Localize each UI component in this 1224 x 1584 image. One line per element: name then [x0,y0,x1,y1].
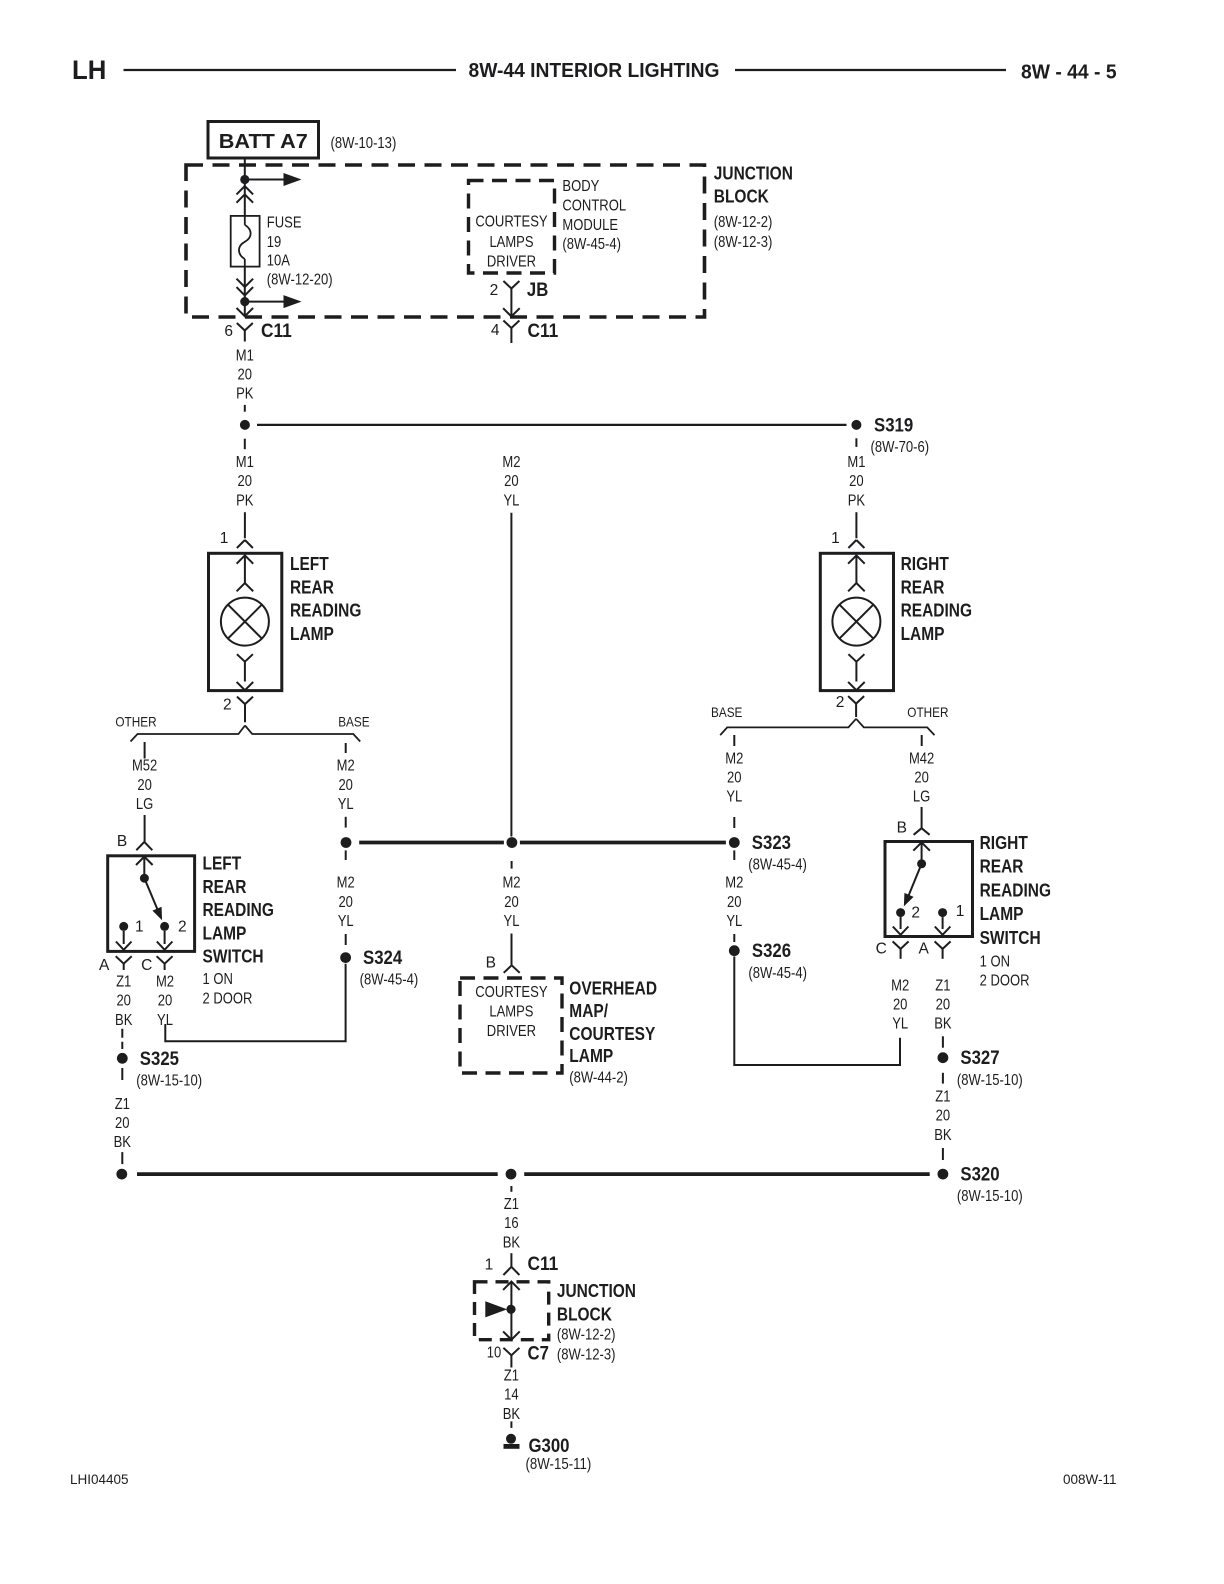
svg-text:M42: M42 [909,750,934,767]
left lamp internal fork lower [237,654,253,681]
svg-text:REAR: REAR [980,857,1024,877]
junction block 2 internal dot [506,1305,515,1314]
svg-text:YL: YL [157,1012,173,1029]
splice dash above S326 [733,934,735,942]
svg-text:S324: S324 [363,947,402,969]
header rule right [735,69,1006,71]
svg-text:READING: READING [980,880,1051,900]
svg-text:(8W-45-4): (8W-45-4) [748,965,807,982]
svg-text:B: B [486,955,496,972]
svg-text:G300: G300 [529,1435,570,1457]
wire courtesy feed line right segment [520,841,726,845]
splice S323 dot [729,837,740,848]
svg-text:BK: BK [934,1127,952,1144]
splice S327 dot [938,1052,949,1063]
wire M1 PK down to left lamp [244,512,246,538]
connector chevrons above fuse [237,186,254,203]
junction block 2 internal arrow [486,1302,506,1317]
left lamp internal chevron [237,583,254,591]
junction block name and references [714,164,793,252]
wire label Z1 20 BK right lower [934,1089,952,1144]
header title 8W-44 INTERIOR LIGHTING [469,60,720,82]
svg-text:16: 16 [504,1215,519,1232]
svg-text:BK: BK [115,1012,133,1029]
right switch pin C connector [876,940,909,958]
svg-text:BLOCK: BLOCK [714,187,769,207]
svg-text:20: 20 [893,997,908,1014]
svg-text:20: 20 [116,993,131,1010]
fuse FUSE 19 10A symbol [231,216,260,267]
svg-text:C: C [876,940,887,957]
svg-text:Z1: Z1 [504,1196,519,1213]
svg-text:LAMP: LAMP [901,624,945,644]
right switch pivot dot [917,859,926,868]
right lamp pin 2 connector [836,694,864,717]
reference (8W-10-13) [331,135,397,152]
svg-text:M2: M2 [891,977,909,994]
svg-text:PK: PK [848,492,866,509]
svg-text:LAMP: LAMP [980,904,1024,924]
svg-text:YL: YL [892,1016,908,1033]
svg-text:JB: JB [527,279,548,301]
svg-text:DRIVER: DRIVER [487,1023,536,1040]
right switch arm with arrow [904,864,921,905]
svg-text:(8W-12-3): (8W-12-3) [557,1346,616,1363]
right switch position legend [980,954,1030,990]
svg-text:M1: M1 [847,454,865,471]
svg-text:LEFT: LEFT [290,554,329,574]
wire label M2 20 YL right base lower [725,875,743,930]
right option bracket [720,719,934,735]
right switch terminal 2 dot [896,908,905,917]
svg-text:(8W-15-10): (8W-15-10) [957,1188,1023,1205]
splice dash below S319 [855,438,857,447]
splice S325 label [136,1048,202,1090]
svg-text:20: 20 [936,1108,951,1125]
svg-text:MAP/: MAP/ [569,1001,608,1021]
junction block 2 internal arrowhead bottom [503,1331,520,1339]
svg-text:(8W-12-20): (8W-12-20) [267,272,333,289]
right lamp internal wire top [855,555,857,583]
svg-text:COURTESY: COURTESY [475,984,547,1001]
left rear reading lamp box [209,553,282,690]
splice dash below S325 [121,1068,123,1080]
svg-text:M2: M2 [337,875,355,892]
svg-text:C: C [141,957,152,974]
splice dash below right bracket other [921,735,923,746]
svg-text:M2: M2 [502,875,520,892]
left rear reading lamp switch box [108,856,195,952]
svg-text:20: 20 [936,997,951,1014]
svg-text:SWITCH: SWITCH [203,947,264,967]
splice dash above ground line right [942,1148,944,1160]
svg-text:PK: PK [236,386,254,403]
left switch arm with arrow [144,878,161,919]
svg-text:LAMPS: LAMPS [489,1003,533,1020]
right switch name label [980,833,1051,948]
ground bus line left segment [137,1172,498,1176]
svg-text:LAMP: LAMP [203,923,247,943]
svg-text:2: 2 [490,282,499,299]
svg-text:C7: C7 [528,1342,549,1364]
svg-text:20: 20 [504,894,519,911]
splice dash below right bracket base [733,735,735,746]
left switch terminal labels [135,919,187,936]
battery feed box BATT A7 [208,122,319,159]
splice dash above S323 [733,817,735,828]
left lamp pin 1 connector [220,530,253,548]
svg-text:BASE: BASE [711,704,742,720]
left lamp internal arrowhead bottom [237,682,254,690]
svg-text:REAR: REAR [901,577,945,597]
wire label M2 20 YL right switch [891,977,909,1032]
splice S323 label [748,832,807,874]
svg-text:LG: LG [913,789,930,806]
svg-text:1: 1 [135,919,144,936]
svg-text:M2: M2 [502,454,520,471]
wire Z1 BK to C11 pin 1 [510,1253,512,1267]
right lamp pin 1 connector [831,530,864,548]
svg-text:YL: YL [503,492,519,509]
wire label M2 20 YL right base upper [725,750,743,805]
svg-text:008W-11: 008W-11 [1063,1472,1117,1487]
overhead map courtesy lamp label [569,978,657,1086]
wire label M2 20 YL left switch [156,974,174,1029]
svg-text:BK: BK [934,1016,952,1033]
connector C11 pin 6 [224,320,292,342]
svg-text:LAMPS: LAMPS [489,234,533,251]
svg-text:6: 6 [224,323,233,340]
right switch pin A connector [918,940,950,958]
svg-text:14: 14 [504,1387,519,1404]
svg-text:S320: S320 [960,1164,999,1186]
svg-text:S325: S325 [140,1048,179,1070]
svg-text:PK: PK [236,492,254,509]
wire BATT A7 to fuse [244,158,246,216]
left switch pin B chevron inside [136,857,153,865]
right rear reading lamp box [820,553,893,690]
svg-text:BATT A7: BATT A7 [219,131,308,153]
svg-text:BK: BK [503,1234,521,1251]
wire below left bracket other [144,742,146,759]
svg-text:Z1: Z1 [115,1096,130,1113]
splice dash above G300 [510,1421,512,1428]
right switch pin B connector [897,820,930,837]
svg-text:BK: BK [114,1134,132,1151]
svg-text:Z1: Z1 [935,977,950,994]
wire label M2 20 YL center upper [502,454,520,509]
left switch name label [203,854,274,967]
svg-text:LAMP: LAMP [569,1046,613,1066]
wire courtesy feed line left segment [359,841,504,845]
svg-text:20: 20 [727,770,742,787]
svg-text:1: 1 [831,530,840,547]
svg-text:YL: YL [338,796,354,813]
wire label Z1 16 BK [503,1196,521,1251]
right switch terminal labels [911,903,964,921]
junction block dashed outline [186,165,705,317]
svg-text:OTHER: OTHER [907,704,948,720]
svg-text:READING: READING [290,601,361,621]
svg-text:A: A [918,940,929,957]
right switch terminal 1 exit arrow [935,917,951,935]
splice S319 dot [851,420,861,430]
svg-text:1 ON: 1 ON [980,954,1010,971]
splice S320 label [957,1164,1023,1206]
svg-text:BK: BK [503,1406,521,1423]
svg-text:20: 20 [338,777,353,794]
svg-text:C11: C11 [261,320,292,342]
svg-text:8W - 44 - 5: 8W - 44 - 5 [1021,62,1117,84]
svg-text:M1: M1 [236,454,254,471]
left lamp pin 2 connector [223,697,253,723]
left lamp name label [290,554,361,644]
svg-text:2: 2 [911,905,920,922]
junction block 2 internal wire [510,1282,512,1340]
wire label M2 20 YL center lower [502,875,520,930]
splice dash above ground line left [121,1152,123,1164]
junction block 2 dashed outline [475,1282,549,1340]
svg-text:LAMP: LAMP [290,624,334,644]
right lamp bulb symbol [832,598,880,646]
svg-text:READING: READING [203,900,274,920]
svg-text:Z1: Z1 [116,974,131,991]
svg-text:BODY: BODY [562,178,599,195]
svg-text:COURTESY: COURTESY [569,1024,655,1044]
connector C11 pin 4 [491,320,559,343]
svg-text:YL: YL [726,913,742,930]
svg-text:M52: M52 [132,758,157,775]
svg-text:Z1: Z1 [504,1368,519,1385]
left lamp pin 1 chevron inside [237,555,254,563]
left switch pin C connector [141,956,173,974]
wire label Z1 20 BK left [115,974,133,1029]
left OTHER label [115,714,156,730]
left lamp bulb symbol [221,598,269,646]
wire label M1 20 PK lower [236,454,254,509]
splice dash below S323 [733,850,735,860]
svg-text:LG: LG [136,796,153,813]
splice S326 dot [729,945,740,956]
svg-text:2: 2 [223,697,232,714]
svg-text:REAR: REAR [290,577,334,597]
wire label M52 20 LG [132,758,157,813]
svg-text:20: 20 [137,777,152,794]
svg-text:M2: M2 [725,750,743,767]
left switch terminal 1 exit arrow [116,931,132,950]
svg-text:10: 10 [487,1345,502,1362]
svg-text:(8W-15-10): (8W-15-10) [136,1072,202,1089]
left switch terminal 1 dot [119,922,128,931]
svg-text:RIGHT: RIGHT [901,554,949,574]
svg-text:MODULE: MODULE [562,217,618,234]
footer sheet code right [1063,1472,1117,1487]
right lamp name label [901,554,972,644]
junction dot center feed [507,837,518,848]
wire M2 YL center long segment [510,513,512,837]
overhead console dashed box [460,978,562,1073]
wire feed line to S319 [257,424,847,426]
svg-text:20: 20 [504,473,519,490]
svg-text:1: 1 [220,530,229,547]
right lamp pin 1 chevron inside [848,555,865,563]
ground G300 symbol [504,1434,520,1447]
svg-text:20: 20 [914,770,929,787]
connector chevrons below fuse [237,279,254,296]
svg-text:JUNCTION: JUNCTION [714,164,793,184]
svg-text:(8W-45-4): (8W-45-4) [562,236,621,253]
overhead lamp pin B connector [486,955,520,973]
right switch pin B chevron inside [913,842,930,850]
header left label LH [72,55,106,85]
svg-text:(8W-10-13): (8W-10-13) [331,135,397,152]
wire label M2 20 YL left base upper [337,758,355,813]
svg-text:COURTESY: COURTESY [475,213,547,230]
svg-text:B: B [117,833,127,850]
svg-text:20: 20 [238,473,253,490]
wire M1 PK down to right lamp [855,512,857,538]
svg-text:10A: 10A [267,253,291,270]
splice S325 dot [117,1053,128,1064]
svg-text:(8W-12-2): (8W-12-2) [714,214,773,231]
pin 2 connector JB [490,279,549,301]
svg-text:(8W-15-11): (8W-15-11) [526,1456,592,1473]
splice S320 dot [938,1169,949,1180]
right OTHER label [907,704,948,720]
splice dash below left base junction [345,850,347,860]
left option bracket [131,726,361,742]
svg-text:YL: YL [726,789,742,806]
wire label Z1 20 BK left lower [114,1096,132,1151]
wire fuse to connector C11 pin 6 [244,267,246,316]
arrowhead into junction block edge [237,308,254,316]
svg-text:1: 1 [485,1257,494,1274]
svg-text:C11: C11 [528,320,559,342]
svg-text:20: 20 [338,894,353,911]
header rule left [124,69,457,71]
wire label Z1 20 BK right [934,977,952,1032]
svg-text:(8W-44-2): (8W-44-2) [569,1069,628,1086]
svg-text:(8W-12-2): (8W-12-2) [557,1327,616,1344]
connector C7 pin 10 [487,1342,549,1367]
svg-text:SWITCH: SWITCH [980,928,1041,948]
wire S324 down and left to switch C terminal [165,964,345,1042]
left BASE label [338,714,369,730]
junction block 2 chevron inside top [503,1282,520,1290]
left switch terminal 2 exit arrow [157,931,173,950]
right BASE label [711,704,742,720]
wire label M42 20 LG [909,750,934,805]
right switch wire B to pivot [921,842,923,859]
junction dot left base [341,837,352,848]
svg-text:(8W-70-6): (8W-70-6) [871,439,930,456]
left switch terminal 2 dot [160,922,169,931]
splice dash below center junction [511,861,513,869]
splice dash above S324 [345,934,347,945]
junction dot below fuse [240,297,249,306]
splice S327 label [957,1047,1023,1089]
svg-text:(8W-12-3): (8W-12-3) [714,234,773,251]
svg-text:OVERHEAD: OVERHEAD [569,978,657,998]
svg-text:8W-44 INTERIOR LIGHTING: 8W-44 INTERIOR LIGHTING [469,60,720,82]
splice dash below M1 junction [244,439,246,450]
right rear reading lamp switch box [885,842,973,937]
left switch position legend [203,971,253,1007]
svg-text:YL: YL [504,913,520,930]
svg-text:BASE: BASE [338,714,369,730]
svg-text:4: 4 [491,322,500,339]
splice S326 label [748,940,807,982]
wire M42 LG to switch B [921,807,923,828]
svg-text:READING: READING [901,601,972,621]
svg-text:S323: S323 [752,832,791,854]
left switch pin A connector [99,956,132,974]
right lamp internal fork lower [848,654,864,681]
junction dot at battery feed [240,175,249,184]
svg-text:20: 20 [727,894,742,911]
junction dot left feed [240,420,250,430]
splice dot left on ground bus [116,1169,127,1180]
svg-text:LH: LH [72,55,106,85]
left switch pin B connector [117,833,152,850]
svg-text:C11: C11 [528,1253,559,1275]
svg-text:(8W-45-4): (8W-45-4) [360,972,419,989]
svg-text:OTHER: OTHER [115,714,156,730]
svg-text:YL: YL [338,913,354,930]
svg-text:S327: S327 [960,1047,999,1069]
svg-text:REAR: REAR [203,877,247,897]
left switch pivot dot [140,874,149,883]
splice dashes above S325 [121,1029,123,1049]
svg-text:(8W-45-4): (8W-45-4) [748,857,807,874]
svg-text:LEFT: LEFT [203,854,242,874]
wire label M1 20 PK right [847,454,865,509]
svg-text:20: 20 [238,367,253,384]
svg-text:FUSE: FUSE [267,215,302,232]
fuse value label FUSE 19 10A (8W-12-20) [267,215,333,289]
splice S324 label [360,947,419,989]
header page number 8W - 44 - 5 [1021,62,1117,84]
svg-text:1: 1 [956,903,965,920]
svg-text:19: 19 [267,234,282,251]
feed tap arrow right lower [245,296,300,308]
splice S319 label [871,414,930,456]
ground bus line right segment [524,1172,930,1176]
courtesy lamps driver dashed box (BCM) [469,181,555,274]
svg-text:JUNCTION: JUNCTION [557,1281,636,1301]
wire JB pin 2 to junction block edge [503,300,520,317]
svg-text:B: B [897,820,907,837]
svg-text:Z1: Z1 [935,1089,950,1106]
wire label Z1 14 BK [503,1368,521,1423]
svg-text:20: 20 [849,473,864,490]
splice dash below center ground junction [510,1186,512,1192]
right switch terminal 2 exit arrow [893,917,909,935]
splice dash below left bracket base [345,743,347,753]
body control module label [562,178,626,253]
svg-text:2 DOOR: 2 DOOR [203,990,253,1007]
right lamp internal arrowhead bottom [848,682,865,690]
svg-text:RIGHT: RIGHT [980,833,1028,853]
svg-text:(8W-15-10): (8W-15-10) [957,1072,1023,1089]
svg-text:M2: M2 [337,758,355,775]
splice dash above S327 [942,1036,944,1047]
splice dash above left base junction [345,817,347,828]
wire M2 YL to overhead lamp B [511,934,513,966]
svg-text:LHI04405: LHI04405 [70,1472,129,1487]
wire S326 down and right to switch C terminal [734,957,900,1066]
feed tap arrow right [245,174,300,186]
